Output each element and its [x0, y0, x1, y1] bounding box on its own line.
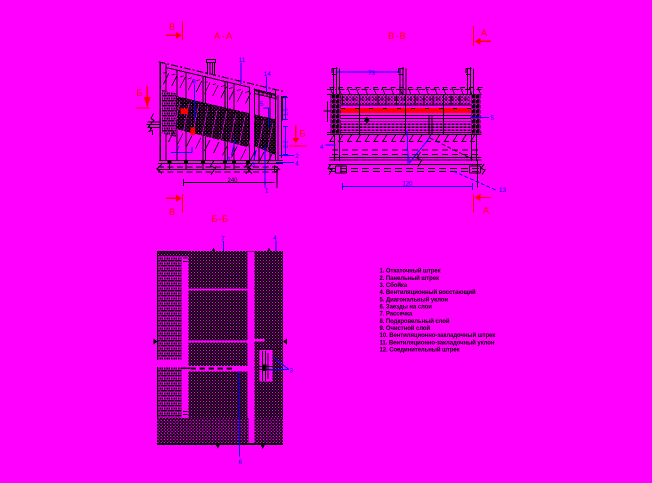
A-A left inner edge	[165, 64, 167, 161]
sill break zigzag 1	[211, 161, 216, 175]
frame dashed line 2	[332, 153, 479, 155]
svg-text:2.2: 2.2	[284, 140, 290, 148]
section marker A bottom	[474, 194, 492, 216]
frame bottom line 2	[330, 159, 482, 161]
A-A bottom edge	[159, 160, 283, 162]
hatch divider line 2	[189, 341, 248, 343]
dim line 240	[183, 170, 277, 188]
cut ticks above band	[164, 72, 252, 104]
top tick 1	[212, 248, 216, 252]
sill top line	[158, 163, 283, 165]
corridor left tick	[181, 367, 190, 369]
callout 13	[454, 171, 507, 194]
svg-text:4: 4	[273, 235, 277, 242]
A-A right section ribs	[254, 88, 281, 160]
mid break zigzag	[417, 152, 422, 167]
A-A left edge	[159, 62, 161, 160]
left edge line	[156, 251, 158, 443]
svg-text:6: 6	[227, 157, 231, 164]
svg-text:Б-Б: Б-Б	[212, 214, 229, 225]
right hatch column	[255, 251, 283, 443]
callout 6 bottom	[239, 372, 243, 467]
right lintel boxes	[254, 91, 276, 100]
svg-text:2. Панельный штрек: 2. Панельный штрек	[380, 275, 439, 282]
sill dashed line 1	[158, 166, 278, 168]
corridor dashed line	[191, 368, 235, 370]
callout 14	[264, 71, 272, 92]
svg-text:5: 5	[491, 115, 495, 122]
bottom edge band	[157, 443, 283, 445]
band A dashed line	[331, 98, 480, 100]
anchor post left	[332, 67, 340, 95]
callout 4 top	[273, 235, 277, 251]
body top edge	[327, 94, 482, 96]
callout 6	[227, 139, 235, 163]
svg-text:6. Заезды на слои: 6. Заезды на слои	[380, 304, 433, 310]
sill feet	[168, 161, 251, 170]
callout 4 left	[320, 144, 336, 151]
svg-text:4: 4	[295, 161, 299, 168]
svg-text:240: 240	[228, 178, 239, 184]
callout 1	[265, 145, 269, 195]
callout 3 bottom	[269, 359, 294, 375]
svg-text:1: 1	[265, 188, 269, 195]
svg-text:73: 73	[369, 71, 376, 77]
svg-text:Б: Б	[137, 88, 143, 98]
base left zigzag	[328, 164, 332, 175]
line under bar	[331, 115, 480, 117]
svg-text:1. Откаточный штрек: 1. Откаточный штрек	[380, 268, 441, 275]
red insert block 2	[191, 128, 196, 136]
top tick 2	[267, 248, 271, 252]
black dashed diagonal	[430, 138, 473, 160]
svg-text:8: 8	[192, 79, 196, 86]
stipple band lower	[331, 124, 480, 133]
svg-text:7: 7	[176, 146, 180, 153]
svg-text:4. Вентиляционный восстающий: 4. Вентиляционный восстающий	[380, 289, 477, 296]
A-A top dash-dot line	[159, 62, 284, 92]
callout 11	[239, 57, 246, 84]
right divider gap	[255, 339, 265, 342]
callout 8	[192, 79, 196, 121]
svg-text:В-В: В-В	[388, 31, 407, 42]
right dim bracket	[283, 96, 288, 120]
base dashed line 2	[329, 171, 482, 173]
svg-text:А: А	[481, 28, 487, 38]
svg-text:3. Сбойка: 3. Сбойка	[380, 282, 408, 289]
roof bolt ticks above	[330, 88, 482, 95]
cut ticks below band	[163, 131, 273, 163]
corridor	[189, 366, 255, 371]
mined layer hatch right	[254, 114, 275, 155]
left edge arrow	[154, 339, 158, 345]
base right zigzag	[481, 164, 485, 175]
dim line 120	[343, 182, 473, 191]
thin line 2	[331, 121, 480, 123]
ladder column	[157, 251, 182, 418]
top band	[157, 251, 283, 257]
svg-text:12. Соединительный штрек: 12. Соединительный штрек	[380, 346, 460, 353]
bottom tick 1	[216, 445, 220, 449]
internal verticals	[360, 95, 444, 134]
top edge line	[157, 251, 283, 253]
left break lines	[147, 114, 161, 136]
right edge arrow	[283, 339, 287, 345]
base right cap	[470, 166, 481, 173]
svg-text:14: 14	[264, 71, 272, 78]
svg-text:13: 13	[499, 187, 507, 194]
dash-dot line above roof	[327, 88, 482, 90]
band divider line	[331, 104, 480, 106]
anchor bolt	[260, 351, 273, 381]
callout 2	[279, 153, 299, 160]
right edge line	[282, 251, 284, 443]
mined layer hatch left	[176, 96, 250, 148]
frame dashed line 1	[332, 149, 479, 151]
sill end arrow	[275, 166, 280, 172]
base left cap	[336, 166, 347, 173]
callout 7 top	[221, 236, 225, 252]
svg-text:А-А: А-А	[214, 31, 233, 42]
band rib dashes	[343, 96, 461, 133]
A-A top chord right	[254, 89, 276, 94]
red ore bar	[340, 108, 472, 113]
svg-text:2: 2	[295, 153, 299, 160]
bottom diagonal band	[157, 418, 283, 443]
svg-text:11: 11	[239, 57, 246, 64]
hatch divider line 1	[189, 289, 248, 291]
svg-text:4: 4	[320, 144, 324, 151]
svg-text:9. Очистной слой: 9. Очистной слой	[380, 325, 431, 332]
svg-text:3: 3	[290, 368, 294, 375]
ladder gap	[157, 360, 182, 367]
frame verticals right	[471, 135, 476, 161]
body bottom edge	[327, 132, 482, 134]
svg-text:7. Рассечка: 7. Рассечка	[380, 312, 413, 318]
svg-text:5: 5	[260, 101, 264, 108]
end column right	[471, 95, 481, 135]
left T-bar	[324, 102, 332, 123]
dashes on ore bar	[341, 107, 472, 109]
sill right chevron	[248, 164, 253, 173]
callout 5 right	[470, 115, 495, 122]
svg-text:Б: Б	[300, 129, 306, 139]
chimney	[207, 60, 216, 75]
bottom tick 2	[261, 445, 265, 449]
sill mid line	[158, 168, 278, 170]
end column left	[331, 95, 341, 135]
strip2 through bottom band	[248, 418, 254, 443]
svg-text:6: 6	[239, 459, 243, 466]
svg-text:120: 120	[403, 182, 414, 188]
callout 7	[171, 146, 192, 153]
anchor pocket	[260, 350, 273, 382]
stipple band upper	[331, 95, 480, 105]
svg-text:В: В	[169, 22, 175, 32]
legend list	[380, 268, 496, 354]
callout 3	[252, 150, 257, 169]
white strip 2	[248, 252, 255, 444]
svg-text:В: В	[169, 207, 175, 217]
anchor post right	[466, 67, 474, 95]
svg-text:8. Подкровельный слой: 8. Подкровельный слой	[380, 318, 450, 325]
sill left chevron	[157, 164, 162, 173]
section marker B left	[136, 86, 151, 108]
svg-text:3: 3	[252, 162, 256, 169]
svg-text:10. Вентиляционно-закладочный: 10. Вентиляционно-закладочный штрек	[380, 332, 496, 339]
frame bottom line 1	[330, 156, 482, 158]
vertical dim 1.5	[283, 97, 290, 119]
thin line 1	[331, 117, 480, 119]
A-A vertical ribs	[177, 70, 249, 160]
section marker A top	[474, 26, 492, 46]
section marker V bottom	[166, 194, 183, 217]
svg-text:5. Диагональный уклон: 5. Диагональный уклон	[380, 296, 449, 303]
main hatch block	[189, 251, 248, 443]
section marker V top	[166, 21, 183, 40]
white channel 1	[182, 257, 189, 417]
channel dashes	[183, 258, 188, 415]
svg-text:11. Вентиляционно-закладочный: 11. Вентиляционно-закладочный уклон	[380, 339, 495, 346]
red insert block 1	[181, 109, 189, 115]
black diamond mark	[364, 117, 370, 123]
anchor post middle	[398, 67, 406, 95]
layered lining strip	[162, 90, 176, 137]
sill dashed line 2	[158, 171, 278, 173]
sill break zigzag 2	[246, 162, 251, 175]
frame verticals left	[335, 135, 340, 161]
vertical dim 2.2	[283, 126, 290, 154]
floor bolt ticks below	[330, 135, 475, 142]
band striations	[174, 101, 274, 154]
A-A top chord left	[166, 68, 250, 88]
right edge drop line	[477, 160, 479, 188]
blue leader pair	[407, 130, 430, 164]
callout 4	[276, 161, 299, 168]
svg-text:1.5: 1.5	[284, 108, 290, 116]
callout 5	[260, 101, 269, 128]
base top line	[329, 164, 483, 166]
svg-text:А: А	[483, 206, 489, 216]
section marker B right	[289, 126, 307, 147]
base dashed line 1	[329, 167, 482, 169]
dim line 73	[336, 71, 401, 77]
